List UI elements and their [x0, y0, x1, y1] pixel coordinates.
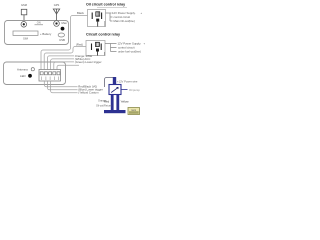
- relay1 box: [88, 10, 106, 27]
- UHF connector: [21, 22, 27, 28]
- svg-text:(Yellow) Custom: (Yellow) Custom: [78, 90, 99, 94]
- sensor pipe left: [111, 95, 114, 111]
- svg-text:Oil circuit control relay: Oil circuit control relay: [86, 2, 125, 6]
- svg-text:Max: Max: [62, 21, 68, 25]
- svg-text:Oil pump: Oil pump: [129, 88, 140, 92]
- SIM slot: [13, 31, 38, 35]
- relay2 right bus: [105, 44, 117, 52]
- button outline: [58, 33, 64, 37]
- antenna UHF symbol: [21, 9, 27, 15]
- relay2 armature: [96, 49, 99, 52]
- svg-text:ON: ON: [37, 21, 41, 25]
- device box bottom (tracker): [4, 62, 66, 85]
- wire relay1 out: [104, 21, 106, 27]
- relay1 contact bar right: [101, 13, 103, 20]
- wire relay2 out: [103, 52, 105, 56]
- svg-text:Circuit control relay: Circuit control relay: [86, 32, 120, 36]
- wire bottom 1: [44, 81, 77, 87]
- switch symbol: [35, 24, 44, 26]
- wire bottom 3: [51, 81, 78, 93]
- svg-text:Orange:: Orange:: [98, 99, 107, 102]
- sensor pipe right: [116, 95, 119, 111]
- pin ticks: [42, 77, 59, 81]
- device box top (tracker top view): [5, 21, 69, 45]
- relay2 coil: [96, 42, 100, 46]
- wire to sensor 12V: [105, 78, 114, 88]
- svg-text:GSM: GSM: [21, 3, 27, 7]
- svg-text:(Green) Lower trigger: (Green) Lower trigger: [75, 60, 102, 64]
- pins: [40, 72, 43, 75]
- svg-text:+12V Power wire: +12V Power wire: [117, 79, 138, 83]
- wire orange-white: [47, 56, 74, 70]
- connector block: [39, 70, 61, 82]
- svg-text:Antenna: Antenna: [17, 67, 28, 71]
- wire red relay2: [44, 47, 86, 70]
- sensor bottom bar: [104, 110, 126, 113]
- wire green trigger: [54, 62, 74, 70]
- svg-text:order fuel-out(line): order fuel-out(line): [118, 50, 141, 54]
- relay2 contact bar right: [100, 44, 102, 51]
- relay2 box: [86, 41, 105, 56]
- sensor valve box: [109, 85, 121, 95]
- sensor right stub: [121, 89, 128, 91]
- svg-text:tank: tank: [131, 109, 136, 112]
- svg-text:+ Battery: + Battery: [40, 32, 52, 36]
- valve symbol: [111, 87, 118, 92]
- relay1 right bus: [106, 13, 113, 21]
- wire black relay1: [41, 16, 88, 70]
- wire bottom 2: [47, 81, 77, 90]
- wire unlabeled: [57, 65, 79, 69]
- relay1 coil: [96, 12, 100, 16]
- svg-text:LED: LED: [20, 74, 26, 78]
- svg-text:SIM: SIM: [23, 36, 29, 40]
- svg-text:Main Oil-out(line): Main Oil-out(line): [114, 19, 135, 23]
- svg-text:GPS: GPS: [54, 3, 60, 7]
- svg-text:Black: Black: [77, 11, 84, 15]
- svg-text:USB: USB: [59, 38, 65, 42]
- relay2 contact bar left: [91, 44, 93, 51]
- svg-text:Yellow: Yellow: [121, 100, 130, 104]
- svg-text:(Red): (Red): [76, 43, 83, 47]
- wire: [23, 15, 25, 22]
- underline: [97, 7, 127, 9]
- wire white ACC: [51, 59, 74, 70]
- sensor pipe top: [113, 77, 116, 85]
- svg-text:Oil-out/Return: Oil-out/Return: [96, 104, 112, 107]
- relay1 contact bar left: [91, 13, 93, 20]
- wire: [56, 9, 58, 21]
- GPS connector: [54, 21, 60, 27]
- antenna GPS symbol: [53, 9, 59, 14]
- LED dot: [61, 27, 65, 31]
- relay1 armature: [96, 19, 99, 22]
- oil tank box: [128, 108, 140, 115]
